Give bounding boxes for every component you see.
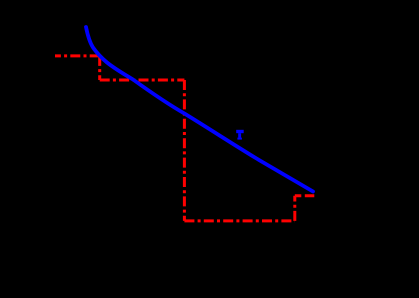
red staircase: segment H1 (55, 54, 100, 57)
red staircase: segment H3 (184, 219, 294, 222)
red staircase: segment V2 (183, 80, 186, 221)
blue curve T(x) (86, 27, 313, 192)
label T (blue, serif bold) (236, 130, 244, 140)
red staircase: segment H4 (295, 194, 315, 197)
red staircase: segment V3 (293, 196, 296, 221)
red staircase: segment H2 (100, 79, 185, 82)
red staircase: segment V1 (98, 56, 101, 80)
